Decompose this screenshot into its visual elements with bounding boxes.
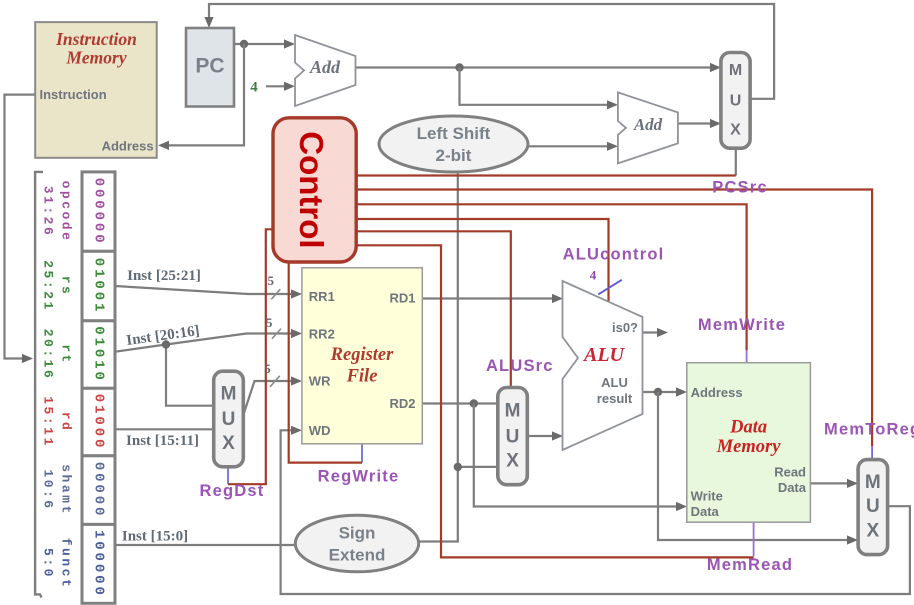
svg-text:M: M (221, 384, 237, 405)
svg-text:Left Shift: Left Shift (417, 124, 491, 143)
svg-text:01001: 01001 (91, 258, 107, 315)
svg-text:Memory: Memory (65, 47, 127, 67)
svg-text:5: 5 (267, 273, 274, 288)
svg-text:X: X (730, 122, 741, 139)
svg-text:rs: rs (59, 276, 74, 297)
svg-text:Sign: Sign (339, 524, 376, 543)
svg-text:File: File (346, 367, 378, 387)
svg-text:Inst [15:11]: Inst [15:11] (126, 433, 199, 449)
svg-text:RegDst: RegDst (200, 482, 265, 500)
svg-text:M: M (729, 62, 742, 79)
svg-text:Write: Write (691, 488, 723, 503)
svg-text:Data: Data (691, 504, 720, 519)
svg-text:4: 4 (250, 80, 258, 96)
svg-text:ALU: ALU (582, 344, 626, 366)
svg-text:RR2: RR2 (309, 327, 335, 342)
svg-text:Extend: Extend (329, 546, 386, 565)
svg-text:RD1: RD1 (389, 290, 415, 305)
svg-text:Inst [15:0]: Inst [15:0] (122, 529, 188, 545)
svg-text:rt: rt (59, 344, 74, 365)
svg-text:Register: Register (330, 345, 394, 365)
svg-text:100000: 100000 (91, 530, 107, 598)
svg-text:10:6: 10:6 (41, 469, 56, 510)
svg-text:shamt: shamt (59, 464, 74, 516)
svg-text:20:16: 20:16 (41, 329, 56, 381)
svg-text:ALU: ALU (601, 375, 628, 390)
svg-text:U: U (730, 93, 742, 110)
svg-text:Control: Control (293, 131, 330, 248)
svg-text:31:26: 31:26 (41, 186, 56, 238)
svg-text:Add: Add (309, 57, 341, 77)
svg-text:Instruction: Instruction (55, 29, 137, 49)
svg-text:opcode: opcode (59, 181, 74, 243)
svg-text:U: U (506, 427, 520, 448)
svg-text:Address: Address (691, 385, 743, 400)
svg-text:ALUSrc: ALUSrc (486, 357, 554, 375)
svg-text:WD: WD (309, 423, 331, 438)
svg-text:funct: funct (59, 538, 74, 590)
svg-text:RD2: RD2 (389, 396, 415, 411)
svg-text:15:11: 15:11 (41, 396, 56, 448)
svg-text:Data: Data (729, 417, 767, 437)
svg-text:2-bit: 2-bit (436, 146, 472, 165)
svg-text:000000: 000000 (91, 178, 107, 246)
svg-text:MemRead: MemRead (707, 556, 793, 574)
svg-text:00000: 00000 (91, 462, 107, 519)
svg-text:Instruction: Instruction (40, 87, 107, 102)
svg-text:X: X (222, 433, 235, 454)
svg-text:Address: Address (102, 139, 154, 154)
svg-text:Inst [25:21]: Inst [25:21] (127, 268, 201, 284)
svg-text:25:21: 25:21 (41, 260, 56, 312)
svg-text:5:0: 5:0 (41, 548, 56, 579)
svg-text:rd: rd (59, 412, 74, 433)
svg-text:5: 5 (266, 315, 273, 330)
svg-text:is0?: is0? (612, 320, 638, 335)
svg-text:X: X (506, 451, 519, 472)
svg-text:M: M (505, 401, 521, 422)
svg-text:Add: Add (633, 115, 663, 134)
svg-text:M: M (865, 472, 881, 493)
svg-text:PC: PC (195, 55, 224, 78)
svg-text:MemWrite: MemWrite (698, 316, 786, 334)
svg-text:X: X (867, 521, 880, 542)
svg-text:MemToReg: MemToReg (824, 421, 914, 439)
svg-text:ALUcontrol: ALUcontrol (563, 246, 665, 264)
svg-text:RR1: RR1 (309, 289, 335, 304)
svg-text:U: U (866, 496, 880, 517)
svg-text:result: result (597, 391, 633, 406)
svg-text:Memory: Memory (716, 437, 782, 457)
svg-text:WR: WR (309, 374, 331, 389)
svg-text:RegWrite: RegWrite (318, 468, 400, 486)
svg-text:01000: 01000 (91, 394, 107, 451)
svg-text:01010: 01010 (91, 326, 107, 383)
svg-text:5: 5 (264, 361, 271, 376)
svg-text:Data: Data (778, 480, 807, 495)
svg-text:PCSrc: PCSrc (712, 179, 768, 197)
svg-text:Read: Read (774, 464, 806, 479)
svg-text:4: 4 (590, 268, 597, 283)
svg-text:U: U (222, 409, 236, 430)
